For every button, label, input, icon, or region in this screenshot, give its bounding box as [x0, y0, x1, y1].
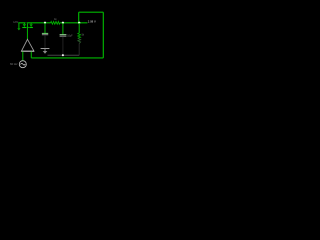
wire R2 top lead: [78, 23, 80, 33]
wire C1 ground lead (0V, dark): [44, 35, 46, 48]
junction node at R2 top: [78, 22, 80, 24]
wire R2 bottom lead (0V, dark): [78, 43, 80, 55]
diode D2: [29, 23, 33, 28]
wire top bridge: [79, 11, 104, 13]
wire C2 top lead: [62, 23, 64, 34]
op-amp U1 (triangle, pointing up): [21, 39, 34, 51]
wire bottom rail (feedback): [31, 57, 103, 59]
junction node on ground bus: [62, 54, 64, 56]
wire op-amp - input: [30, 52, 32, 58]
junction node at C1 top: [44, 22, 46, 24]
wire top rail left: [18, 22, 50, 24]
diode D1: [22, 23, 29, 28]
wire op-amp + input: [22, 52, 24, 61]
wire ground bus (0V): [48, 54, 80, 56]
wire top rail right: [60, 22, 88, 24]
resistor R2 (vertical zigzag, load): [78, 33, 81, 43]
wire bridge drop to rail: [78, 12, 80, 23]
junction node at C2 top: [62, 22, 64, 24]
wire C1 top lead: [44, 23, 46, 33]
svg-text:10µF: 10µF: [67, 34, 73, 38]
ground GND1 (bar + arrow): [41, 49, 50, 54]
ground G1 (arrow style, green): [17, 23, 20, 31]
capacitor C2: [60, 35, 67, 37]
svg-text:120V: 120V: [13, 20, 18, 24]
wire C2 ground lead (0V, dark): [62, 37, 64, 55]
wire right riser: [102, 12, 104, 58]
wire rail dim patch between diodes: [25, 22, 27, 24]
svg-text:60 Hz: 60 Hz: [10, 62, 18, 66]
capacitor C1: [42, 33, 48, 34]
wire op-amp output (apex): [26, 23, 28, 39]
resistor R1 (series, horizontal zigzag): [51, 21, 60, 24]
svg-text:2.08 V: 2.08 V: [88, 19, 96, 23]
AC source V1 (1-terminal rail, circle with sine): [19, 61, 26, 68]
